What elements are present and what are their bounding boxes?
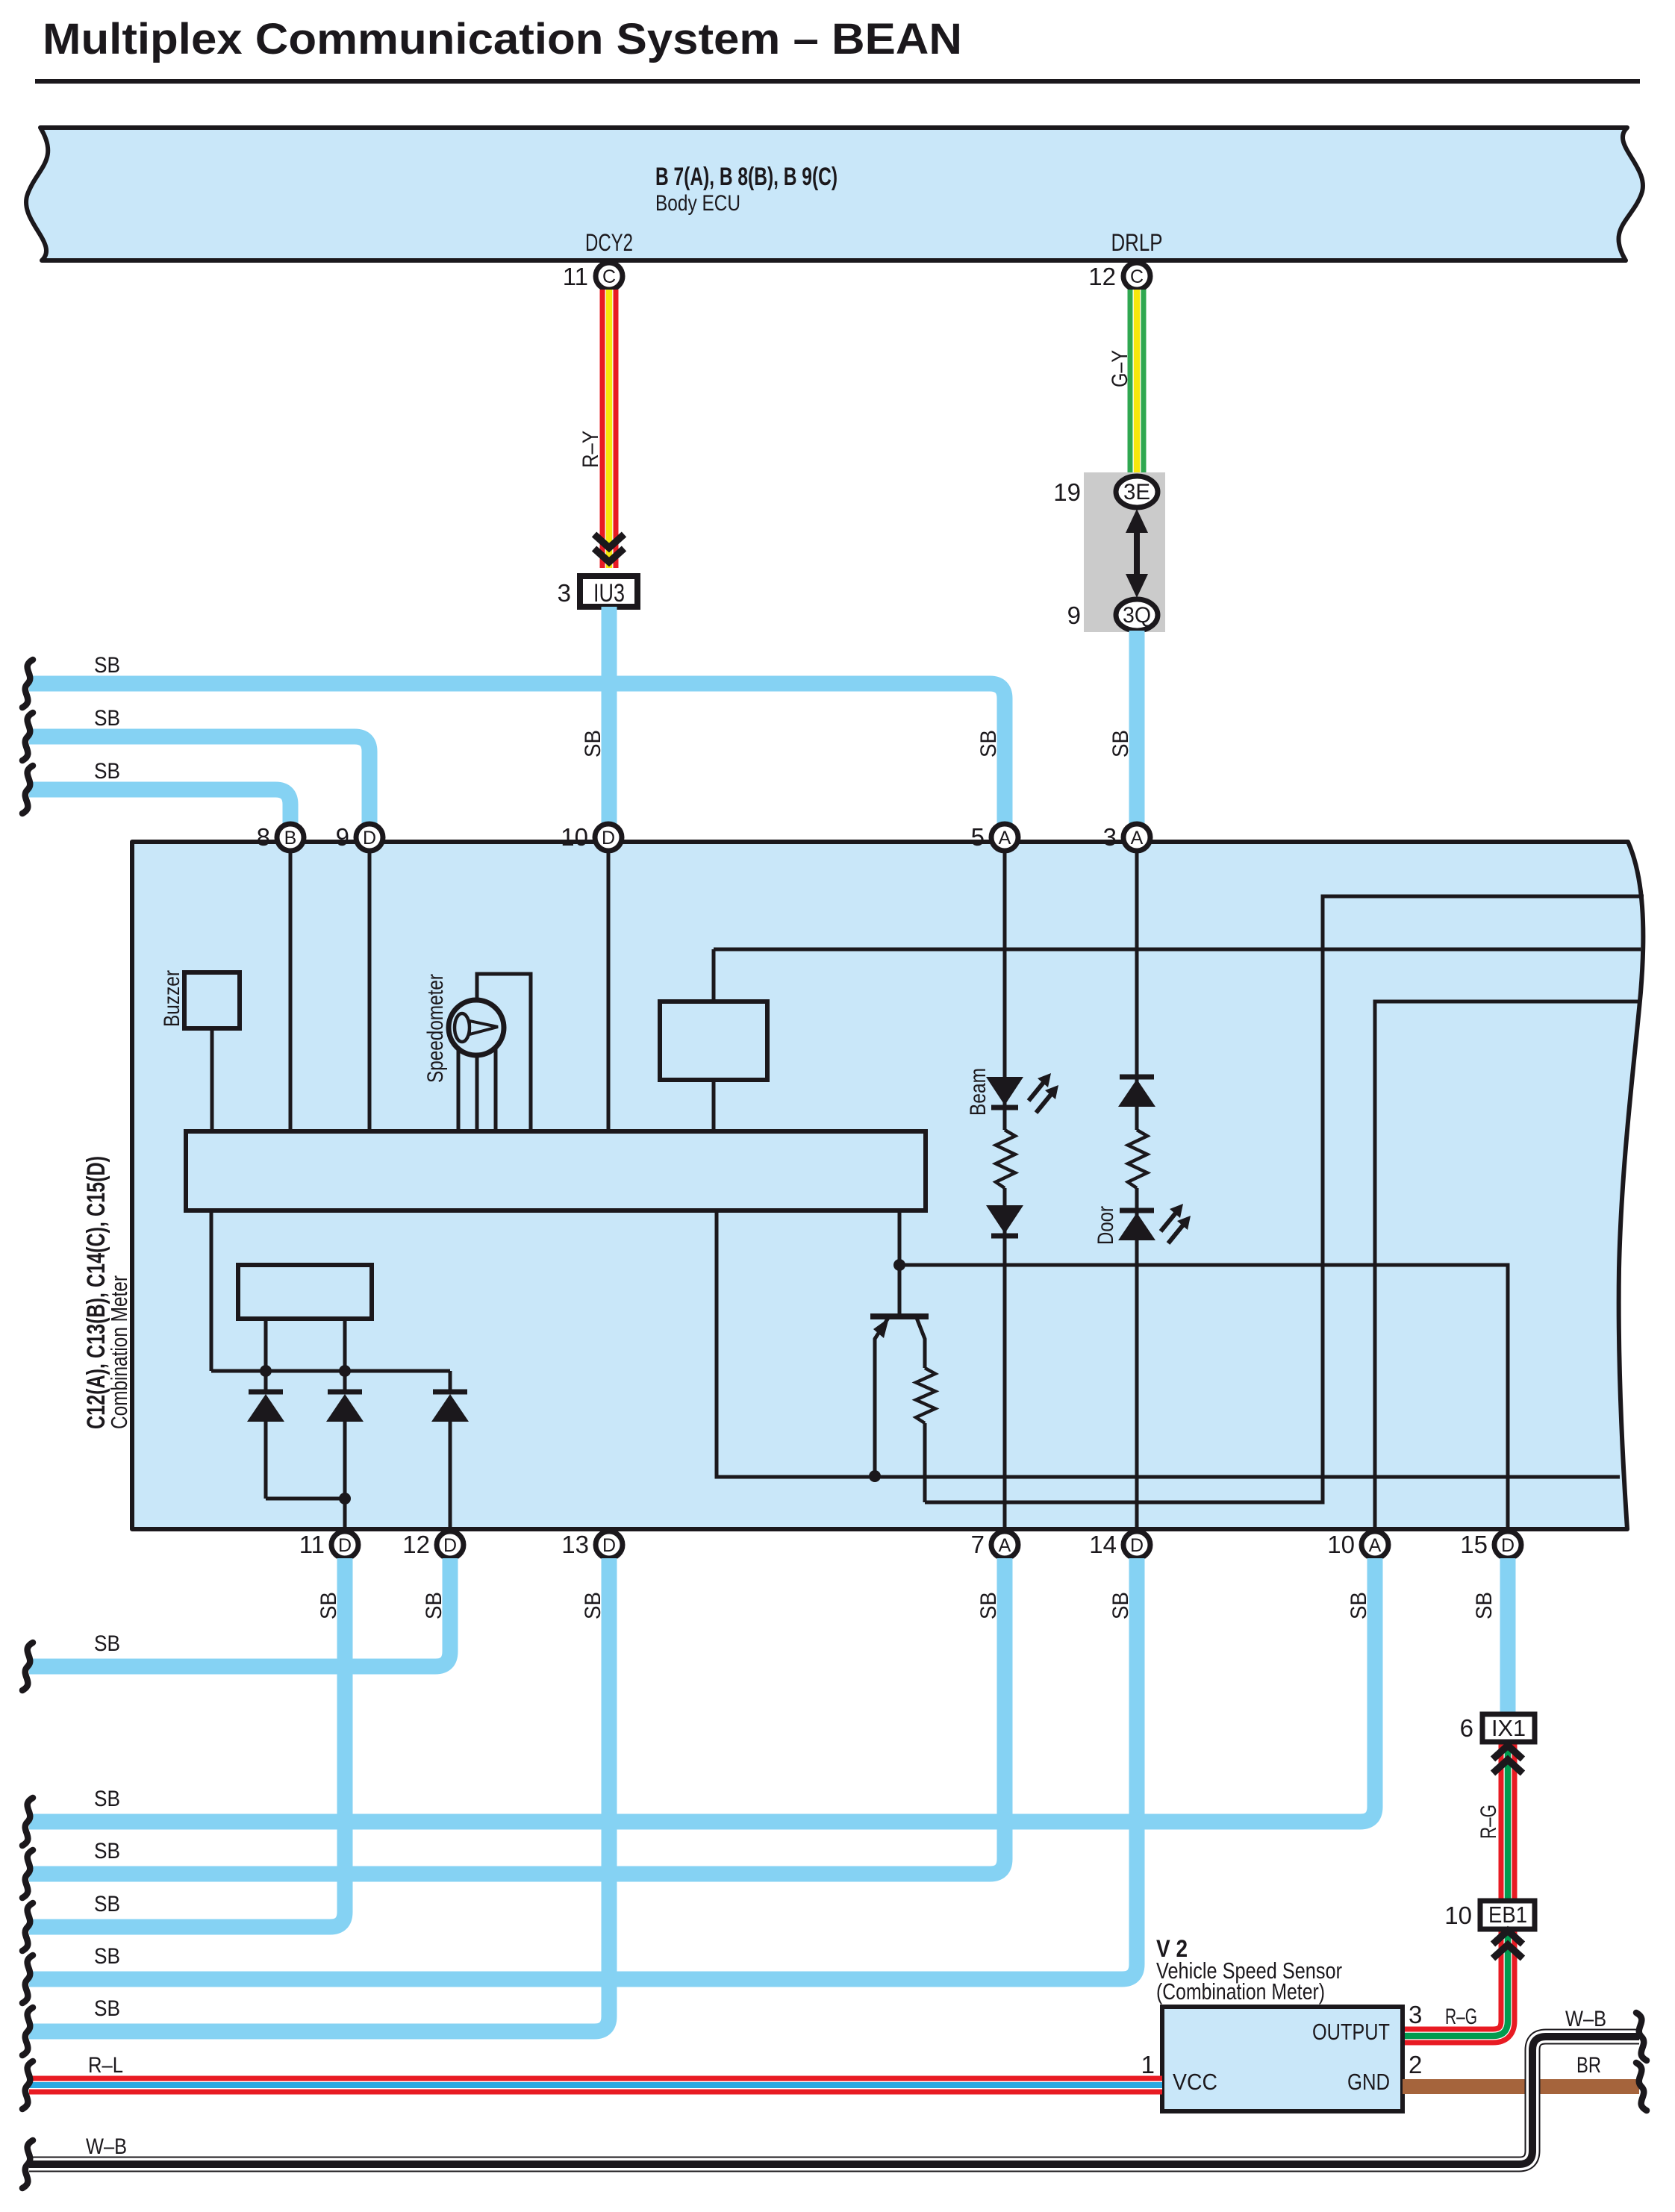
svg-text:2: 2 [1409, 2051, 1422, 2078]
wire SB pin11D [29, 1558, 345, 1927]
pin 14 D [1089, 1531, 1150, 1558]
svg-text:B: B [284, 828, 297, 849]
node emitter junction [869, 1470, 881, 1482]
svg-text:IX1: IX1 [1491, 1715, 1526, 1741]
svg-text:A: A [1369, 1535, 1382, 1556]
svg-text:GND: GND [1347, 2069, 1390, 2095]
resistor R3 [1128, 1130, 1147, 1188]
node diode rail a [260, 1365, 272, 1377]
wire R-G from OUTPUT [1403, 1930, 1508, 2036]
logic box [660, 949, 767, 1131]
connector label DRLP [1111, 229, 1163, 256]
svg-text:Beam: Beam [966, 1068, 991, 1116]
wire R-L [29, 2053, 1162, 2085]
svg-text:DRLP: DRLP [1111, 229, 1163, 256]
svg-text:3: 3 [558, 579, 571, 607]
svg-text:D: D [338, 1535, 352, 1556]
svg-text:SB: SB [1472, 1592, 1497, 1619]
diode D2 [326, 1371, 364, 1531]
pin 15 D [1460, 1531, 1521, 1558]
svg-text:D: D [1130, 1535, 1144, 1556]
pin 3 A [1103, 823, 1150, 851]
svg-text:12: 12 [1088, 263, 1116, 290]
arrow into IU3 [594, 534, 624, 562]
V2 pin 3 label [1409, 2001, 1477, 2029]
wire pin9 to bus [368, 851, 372, 1131]
break curl BR [1636, 2063, 1647, 2111]
svg-text:15: 15 [1460, 1531, 1488, 1558]
svg-text:19: 19 [1053, 478, 1081, 506]
title rule [35, 79, 1640, 84]
svg-text:IU3: IU3 [593, 579, 625, 607]
wire G-Y [1108, 290, 1137, 478]
break curl SB b [22, 713, 33, 760]
svg-text:SB: SB [1108, 1592, 1133, 1619]
pin 10 D [561, 823, 622, 851]
V2 pin 2 label [1409, 2051, 1422, 2078]
wire W-B [29, 2007, 1639, 2164]
svg-text:3: 3 [1103, 823, 1117, 851]
node collector junction [893, 1259, 905, 1271]
svg-text:SB: SB [581, 730, 605, 757]
break curl SB y2441 [22, 1798, 33, 1846]
svg-text:BR: BR [1576, 2053, 1601, 2078]
break curl SB y2582 [22, 1903, 33, 1951]
buzzer [160, 970, 240, 1131]
svg-text:SB: SB [94, 1892, 120, 1916]
LED Door [1094, 1204, 1191, 1245]
svg-text:G–Y: G–Y [1108, 350, 1132, 387]
diode D4 [1118, 1077, 1155, 1107]
svg-text:SB: SB [94, 1631, 120, 1656]
connector 3E pin 19 [1053, 476, 1158, 507]
svg-text:SB: SB [94, 1996, 120, 2021]
wire node to pin 15D [899, 1265, 1508, 1531]
svg-text:D: D [602, 1535, 616, 1556]
svg-text:3Q: 3Q [1123, 603, 1151, 628]
svg-text:A: A [999, 1535, 1011, 1556]
svg-text:SB: SB [94, 759, 120, 784]
Combination Meter block [132, 842, 1643, 1529]
break curl SB y2233 [22, 1643, 33, 1690]
svg-text:C: C [602, 266, 616, 287]
node D1 junction [339, 1493, 351, 1505]
break curl SB a [22, 660, 33, 707]
title [43, 15, 962, 63]
diode D1 [247, 1371, 284, 1499]
wire pin8 to bus [289, 851, 293, 1131]
Vehicle Speed Sensor box [1162, 2007, 1403, 2111]
svg-text:9: 9 [1067, 602, 1081, 629]
connector 3Q pin 9 [1067, 599, 1158, 631]
svg-text:8: 8 [257, 823, 270, 851]
svg-text:D: D [363, 828, 376, 849]
pin 12 C of Body ECU [1088, 263, 1150, 290]
diode pack box [238, 1265, 372, 1371]
arrow into IX1 [1493, 1746, 1523, 1773]
Body ECU label [655, 163, 837, 216]
Body ECU block [26, 128, 1643, 260]
pin 5 A [971, 823, 1018, 851]
svg-text:Multiplex Communication System: Multiplex Communication System – BEAN [43, 15, 962, 63]
pin 12 D [402, 1531, 464, 1558]
wire SB to pin 9D [29, 706, 369, 824]
svg-text:OUTPUT: OUTPUT [1312, 2019, 1390, 2045]
svg-text:SB: SB [94, 706, 120, 731]
svg-text:Buzzer: Buzzer [160, 970, 184, 1027]
diode D3 [431, 1371, 469, 1531]
svg-text:6: 6 [1460, 1714, 1473, 1742]
svg-text:SB: SB [316, 1592, 341, 1619]
wire SB to pin 8B [29, 759, 290, 824]
svg-text:5: 5 [971, 823, 985, 851]
break curl SB y2652 [22, 1955, 33, 2003]
svg-text:W–B: W–B [1565, 2007, 1606, 2031]
svg-text:C: C [1130, 266, 1144, 287]
wire pin5A to pin7A [1003, 851, 1007, 1531]
svg-text:B 7(A), B 8(B), B 9(C): B 7(A), B 8(B), B 9(C) [655, 163, 837, 191]
junction connector box [1084, 472, 1165, 632]
svg-text:1: 1 [1141, 2051, 1155, 2078]
node diode rail b [339, 1365, 351, 1377]
svg-text:Speedometer: Speedometer [423, 974, 448, 1083]
LED beam lower [986, 1205, 1023, 1236]
wire R-G upper [1476, 1743, 1508, 1901]
svg-text:SB: SB [94, 653, 120, 678]
svg-text:10: 10 [1327, 1531, 1355, 1558]
wire SB pin15D to IX1 [1472, 1558, 1508, 1714]
svg-text:Door: Door [1094, 1206, 1118, 1245]
transistor Q1 [870, 1210, 929, 1476]
wire bus to diode rail [211, 1210, 450, 1371]
wire SB pin12D [29, 1558, 450, 1666]
svg-text:Combination Meter: Combination Meter [106, 1275, 132, 1429]
break curl W-B left [22, 2140, 33, 2188]
connector IU3 pin 3 [558, 576, 637, 607]
wire SB pin10A [29, 1558, 1375, 1822]
svg-text:9: 9 [336, 823, 349, 851]
wire D1 to pin11 line [266, 1497, 345, 1501]
pin 7 A [971, 1531, 1018, 1558]
wire SB from IU3 to pin 10D [581, 607, 609, 824]
V2 box labels [1173, 2019, 1390, 2095]
svg-text:R–L: R–L [88, 2053, 123, 2078]
svg-text:SB: SB [422, 1592, 446, 1619]
svg-text:3E: 3E [1123, 480, 1150, 504]
wire BR [1403, 2053, 1639, 2087]
svg-text:A: A [999, 828, 1011, 849]
speedometer box [477, 974, 531, 1132]
resistor R1 [916, 1368, 935, 1502]
speedometer leads [458, 1049, 496, 1131]
break curl R-L [22, 2061, 33, 2109]
connector IX1 pin 6 [1460, 1714, 1535, 1742]
Combination Meter label [82, 1156, 132, 1429]
wire R-Y [578, 290, 609, 568]
svg-text:SB: SB [581, 1592, 605, 1619]
svg-text:11: 11 [299, 1531, 325, 1558]
svg-text:D: D [602, 828, 615, 849]
wire SB from 3Q to pin 3A [1108, 631, 1137, 824]
speedometer dial [423, 974, 504, 1083]
pin 10 A [1327, 1531, 1388, 1558]
svg-text:3: 3 [1409, 2001, 1422, 2028]
wire L1 to right edge [925, 896, 1644, 1502]
pin 9 D [336, 823, 383, 851]
break curl SB y2722 [22, 2008, 33, 2055]
svg-text:D: D [1501, 1535, 1515, 1556]
svg-text:VCC: VCC [1173, 2069, 1217, 2095]
svg-text:12: 12 [402, 1531, 430, 1558]
resistor R2 [996, 1130, 1015, 1188]
pin 11 D [299, 1531, 358, 1558]
svg-text:7: 7 [971, 1531, 985, 1558]
pin 8 B [257, 823, 304, 851]
connector label DCY2 [585, 229, 633, 256]
svg-text:R–G: R–G [1445, 2005, 1477, 2029]
svg-text:EB1: EB1 [1488, 1902, 1527, 1928]
pin 11 C of Body ECU [563, 263, 623, 290]
connector EB1 pin 10 [1444, 1901, 1535, 1929]
svg-text:SB: SB [976, 1592, 1001, 1619]
svg-text:R–G: R–G [1476, 1805, 1501, 1839]
wire emitter rail to right edge [717, 1210, 1620, 1477]
svg-text:R–Y: R–Y [578, 431, 603, 468]
break curl W-B right [1636, 2013, 1647, 2061]
svg-text:SB: SB [94, 1839, 120, 1863]
arrow into EB1 [1493, 1931, 1523, 1958]
wire L3 pin10A to right edge [1375, 1002, 1640, 1531]
svg-text:SB: SB [94, 1787, 120, 1811]
wire L2 to right edge [714, 948, 1641, 952]
wire pin10 to bus [607, 851, 611, 1131]
wire SB to pin 5A [29, 653, 1005, 824]
wire pin3A to pin14D [1135, 851, 1139, 1531]
svg-text:D: D [443, 1535, 457, 1556]
svg-text:SB: SB [1347, 1592, 1371, 1619]
svg-text:10: 10 [561, 823, 588, 851]
pin 13 D [561, 1531, 623, 1558]
LED Beam [966, 1068, 1058, 1116]
V2 pin 1 label [1141, 2051, 1155, 2078]
svg-text:W–B: W–B [86, 2134, 127, 2159]
arrow between 3E and 3Q [1126, 509, 1148, 598]
svg-text:SB: SB [1108, 730, 1133, 757]
svg-text:Body ECU: Body ECU [655, 191, 740, 216]
svg-text:(Combination Meter): (Combination Meter) [1156, 1978, 1325, 2005]
svg-text:14: 14 [1089, 1531, 1117, 1558]
svg-text:SB: SB [94, 1944, 120, 1969]
svg-text:13: 13 [561, 1531, 589, 1558]
svg-text:11: 11 [563, 263, 588, 290]
wire SB pin13D [29, 1558, 609, 2031]
svg-text:DCY2: DCY2 [585, 229, 633, 256]
svg-text:10: 10 [1444, 1902, 1472, 1929]
wire SB pin14D [29, 1558, 1137, 1979]
V2 label [1156, 1935, 1342, 2005]
bus bar [186, 1131, 926, 1210]
break curl SB c [22, 766, 33, 813]
break curl SB y2511 [22, 1850, 33, 1898]
svg-text:A: A [1131, 828, 1144, 849]
wire SB pin7A [29, 1558, 1005, 1874]
svg-text:SB: SB [976, 730, 1001, 757]
